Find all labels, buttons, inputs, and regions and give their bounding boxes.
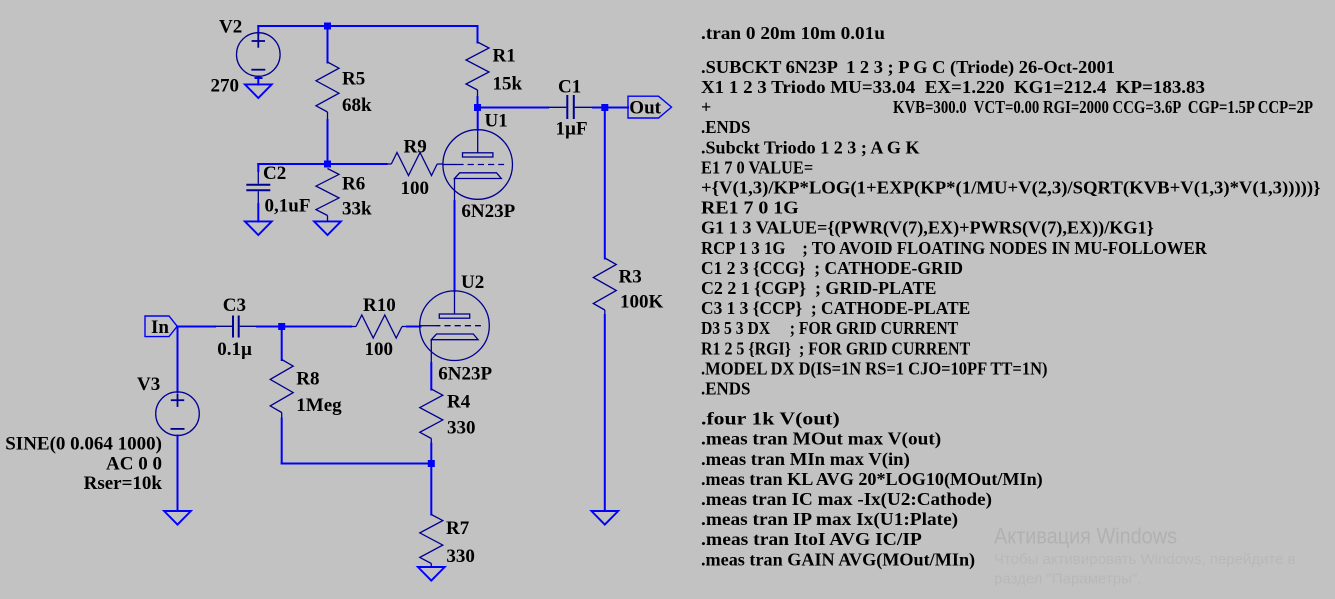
svg-text:6N23P: 6N23P <box>438 363 492 384</box>
resistor R5 <box>316 62 339 120</box>
svg-text:Активация Windows: Активация Windows <box>994 524 1177 549</box>
svg-text:.ENDS: .ENDS <box>701 379 750 399</box>
spice directive subckt block <box>701 57 1321 399</box>
wire <box>327 120 329 164</box>
ground <box>591 511 618 525</box>
svg-text:V3: V3 <box>137 374 160 395</box>
wire <box>478 107 549 109</box>
wire <box>604 108 606 259</box>
ground <box>314 221 341 235</box>
voltage source V2 bottom lead <box>256 77 262 85</box>
watermark activate windows <box>994 524 1296 588</box>
svg-text:.Subckt Triodo 1 2 3 ; A G K: .Subckt Triodo 1 2 3 ; A G K <box>701 137 920 157</box>
resistor R1 <box>466 42 489 97</box>
svg-text:.meas tran MIn max V(in): .meas tran MIn max V(in) <box>701 449 910 470</box>
resistor R8 <box>270 360 293 419</box>
svg-text:R1: R1 <box>493 45 516 66</box>
ground <box>164 511 191 525</box>
spice directive meas block <box>701 409 1043 571</box>
svg-text:C1: C1 <box>558 77 581 98</box>
svg-text:R5: R5 <box>342 68 365 89</box>
capacitor C2 <box>246 171 270 204</box>
wire <box>477 26 479 43</box>
junction node <box>278 323 285 330</box>
svg-text:C1 2 3 {CCG} ; CATHODE-GRID: C1 2 3 {CCG} ; CATHODE-GRID <box>701 258 963 278</box>
svg-text:SINE(0 0.064 1000): SINE(0 0.064 1000) <box>5 433 162 454</box>
voltage source V3 <box>156 392 200 436</box>
port flag In <box>145 316 177 338</box>
svg-text:15k: 15k <box>493 73 523 94</box>
wire <box>282 463 432 465</box>
svg-text:.four 1k V(out): .four 1k V(out) <box>701 409 840 430</box>
wire <box>430 363 432 390</box>
resistor R7 <box>420 515 443 568</box>
resistor R3 <box>593 258 616 315</box>
svg-text:.meas tran IC max -Ix(U2:Catho: .meas tran IC max -Ix(U2:Cathode) <box>701 489 992 510</box>
resistor R6 <box>316 169 339 222</box>
svg-text:KVB=300.0 VCT=0.00 RGI=2000 C: KVB=300.0 VCT=0.00 RGI=2000 CCG=3.6P CGP… <box>893 97 1313 117</box>
svg-text:330: 330 <box>446 546 475 567</box>
svg-text:.ENDS: .ENDS <box>701 117 750 137</box>
svg-text:RCP 1 3 1G ; TO AVOID FLOAT: RCP 1 3 1G ; TO AVOID FLOATING NODES IN … <box>701 238 1208 258</box>
svg-text:U2: U2 <box>461 272 484 293</box>
svg-text:0.1µ: 0.1µ <box>217 339 252 360</box>
wire <box>257 204 259 222</box>
svg-text:R10: R10 <box>363 295 396 316</box>
svg-text:U1: U1 <box>485 111 508 132</box>
junction node <box>324 23 331 30</box>
capacitor C3 <box>215 316 257 338</box>
wire <box>257 26 259 34</box>
junction node <box>428 460 435 467</box>
svg-text:RE1 7 0 1G: RE1 7 0 1G <box>701 198 799 218</box>
port flag Out <box>628 96 672 118</box>
svg-text:Rser=10k: Rser=10k <box>84 473 163 494</box>
svg-text:AC 0 0: AC 0 0 <box>106 454 162 475</box>
svg-text:Out: Out <box>629 98 661 119</box>
triode tube U1 <box>443 130 513 202</box>
wire <box>281 327 283 361</box>
wire <box>430 444 432 464</box>
wire <box>258 163 327 165</box>
wire <box>177 436 179 512</box>
svg-text:.meas tran IP max Ix(U1:Plate): .meas tran IP max Ix(U1:Plate) <box>701 509 958 530</box>
svg-text:+{V(1,3)/KP*LOG(1+EXP(KP*(1/MU: +{V(1,3)/KP*LOG(1+EXP(KP*(1/MU+V(2,3)/SQ… <box>701 178 1321 199</box>
svg-text:270: 270 <box>211 76 240 97</box>
svg-text:100: 100 <box>401 178 430 199</box>
wire <box>281 419 283 464</box>
svg-text:раздел "Параметры".: раздел "Параметры". <box>994 571 1141 588</box>
wire <box>328 163 387 165</box>
junction node <box>324 161 331 168</box>
wire <box>407 326 421 328</box>
wire <box>477 97 479 108</box>
svg-text:6N23P: 6N23P <box>461 201 515 222</box>
wire <box>593 107 628 109</box>
wire <box>177 326 215 328</box>
junction node <box>474 104 481 111</box>
wire <box>454 201 456 291</box>
svg-text:100K: 100K <box>620 291 664 312</box>
wire <box>258 25 477 27</box>
svg-text:68k: 68k <box>342 95 372 116</box>
wire <box>177 327 179 393</box>
wire <box>604 315 606 511</box>
svg-text:0,1uF: 0,1uF <box>265 195 311 216</box>
svg-text:.meas tran MOut max V(out): .meas tran MOut max V(out) <box>701 429 941 450</box>
svg-text:Чтобы активировать Windows, пе: Чтобы активировать Windows, перейдите в <box>994 551 1296 568</box>
svg-text:.MODEL DX D(IS=1N RS=1 CJO=10P: .MODEL DX D(IS=1N RS=1 CJO=10PF TT=1N) <box>701 358 1048 379</box>
svg-text:1µF: 1µF <box>556 119 588 140</box>
triode tube U2 <box>420 291 490 363</box>
svg-text:100: 100 <box>365 339 394 360</box>
wire <box>257 164 259 171</box>
wire <box>477 108 479 131</box>
svg-text:C2 2 1 {CGP} ; GRID-PLATE: C2 2 1 {CGP} ; GRID-PLATE <box>701 278 936 298</box>
svg-text:C3 1 3 {CCP} ; CATHODE-PLATE: C3 1 3 {CCP} ; CATHODE-PLATE <box>701 298 970 318</box>
svg-text:.meas tran GAIN AVG(MOut/MIn): .meas tran GAIN AVG(MOut/MIn) <box>701 549 975 570</box>
ground <box>245 221 272 235</box>
svg-text:C3: C3 <box>223 295 246 316</box>
svg-text:1Meg: 1Meg <box>296 395 342 416</box>
voltage source V2 <box>236 33 280 77</box>
capacitor C1 <box>548 95 593 119</box>
svg-text:R9: R9 <box>404 136 427 157</box>
svg-text:R7: R7 <box>446 518 470 539</box>
wire <box>257 326 351 328</box>
svg-text:R6: R6 <box>342 174 365 195</box>
svg-text:R3: R3 <box>619 266 642 287</box>
svg-text:.tran 0 20m 10m 0.01u: .tran 0 20m 10m 0.01u <box>701 23 885 43</box>
svg-text:V2: V2 <box>219 17 242 38</box>
svg-text:R8: R8 <box>296 369 319 390</box>
ground <box>418 567 445 581</box>
svg-text:G1 1 3 VALUE={(PWR(V(7),EX)+PW: G1 1 3 VALUE={(PWR(V(7),EX)+PWRS(V(7),EX… <box>701 218 1154 239</box>
svg-text:.meas tran ItoI AVG IC/IP: .meas tran ItoI AVG IC/IP <box>701 529 922 549</box>
svg-text:X1 1 2 3 Triodo MU=33.04 EX=1: X1 1 2 3 Triodo MU=33.04 EX=1.220 KG1=21… <box>701 77 1205 97</box>
svg-text:330: 330 <box>447 418 476 439</box>
svg-text:.SUBCKT 6N23P 1 2 3 ; P G C (: .SUBCKT 6N23P 1 2 3 ; P G C (Triode) 26-… <box>701 57 1115 78</box>
svg-text:C2: C2 <box>263 163 286 184</box>
wire <box>327 26 329 63</box>
ground <box>245 84 272 98</box>
svg-text:+: + <box>701 97 711 117</box>
svg-text:33k: 33k <box>342 199 372 220</box>
wire <box>430 464 432 515</box>
svg-text:R1 2 5 {RGI} ; FOR GRID CURRE: R1 2 5 {RGI} ; FOR GRID CURRENT <box>701 338 970 358</box>
svg-text:E1 7 0 VALUE=: E1 7 0 VALUE= <box>701 157 813 177</box>
resistor R4 <box>420 389 443 444</box>
resistor R9 <box>386 153 443 176</box>
svg-text:D3 5 3 DX ; FOR GRID CURRE: D3 5 3 DX ; FOR GRID CURRENT <box>701 318 958 338</box>
svg-text:In: In <box>151 317 169 338</box>
junction node <box>601 104 608 111</box>
svg-text:R4: R4 <box>447 391 471 412</box>
resistor R10 <box>351 315 407 338</box>
svg-text:.meas tran KL AVG 20*LOG10(MOu: .meas tran KL AVG 20*LOG10(MOut/MIn) <box>701 469 1043 490</box>
